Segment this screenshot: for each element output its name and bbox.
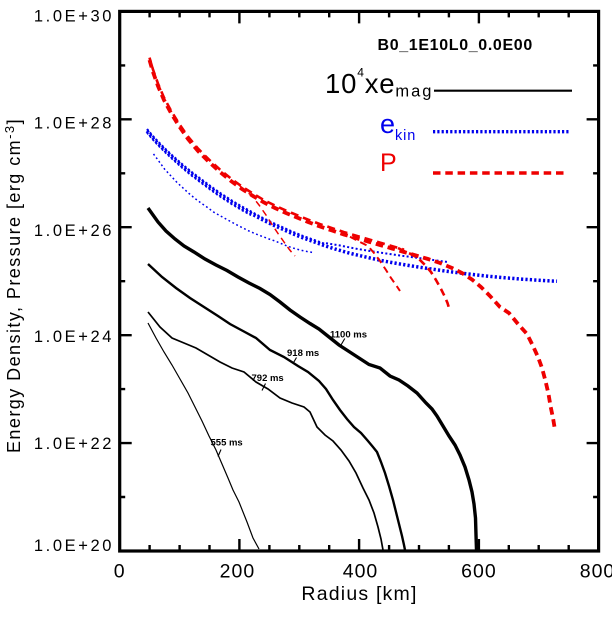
- svg-text:1.0E+20: 1.0E+20: [34, 537, 114, 555]
- blue e_kin 792 ms curve (band overlay upper): [147, 133, 251, 216]
- red P 1100 ms curve: [150, 60, 556, 430]
- svg-text:1.0E+28: 1.0E+28: [34, 114, 114, 132]
- svg-text:Radius [km]: Radius [km]: [301, 583, 417, 605]
- svg-text:1.0E+24: 1.0E+24: [34, 328, 114, 346]
- svg-text:792 ms: 792 ms: [252, 373, 284, 384]
- svg-text:1100 ms: 1100 ms: [330, 330, 367, 341]
- red P 918 ms band overlay: [150, 58, 405, 250]
- blue e_kin band overlay: [147, 129, 324, 244]
- black e_mag 792 ms curve: [148, 312, 383, 550]
- svg-text:1.0E+30: 1.0E+30: [34, 8, 114, 26]
- black e_mag 918 ms curve: [148, 264, 405, 550]
- svg-text:918 ms: 918 ms: [287, 348, 319, 359]
- blue e_kin 555 ms curve: [154, 154, 314, 253]
- axis ticks: [120, 11, 599, 551]
- svg-text:Energy Density, Pressure [erg: Energy Density, Pressure [erg cm-3]: [2, 118, 24, 453]
- blue e_kin 1100 ms curve: [147, 131, 557, 281]
- svg-text:1.0E+26: 1.0E+26: [34, 222, 114, 240]
- svg-text:555 ms: 555 ms: [211, 438, 243, 449]
- svg-text:0: 0: [114, 561, 126, 583]
- svg-text:B0_1E10L0_0.0E00: B0_1E10L0_0.0E00: [378, 37, 533, 54]
- axis box: [120, 11, 599, 551]
- svg-text:600: 600: [461, 561, 497, 583]
- svg-text:800: 800: [580, 561, 612, 583]
- svg-text:1.0E+22: 1.0E+22: [34, 435, 114, 453]
- red P 792 ms curve (diverging tail): [350, 237, 400, 291]
- svg-text:400: 400: [343, 561, 379, 583]
- red P 555 ms curve (diverging tail): [240, 186, 295, 256]
- red P 918 ms curve (diverging tail): [398, 248, 449, 308]
- blue e_kin 918 ms curve (diverging upper strand): [326, 243, 448, 262]
- svg-text:200: 200: [220, 561, 256, 583]
- black e_mag 1100 ms curve: [148, 208, 477, 550]
- black e_mag 555 ms curve: [148, 323, 259, 549]
- svg-text:P: P: [380, 149, 397, 177]
